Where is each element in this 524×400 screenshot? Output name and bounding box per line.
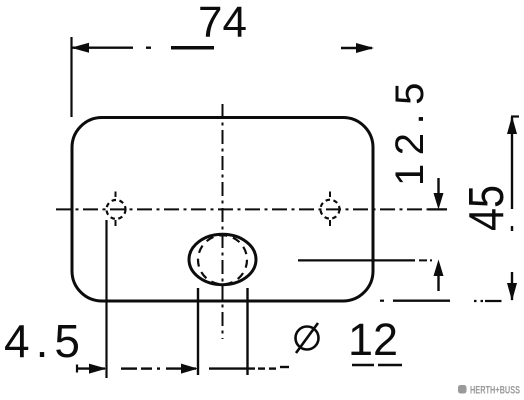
small hole right (ø4.5)	[321, 200, 340, 219]
dim 74: left arrowhead	[71, 43, 89, 53]
dim 74: dimension line left part	[72, 47, 133, 49]
ø12 left extension line	[197, 288, 199, 375]
right hole vertical center tick	[329, 192, 331, 198]
svg-text:12.5: 12.5	[388, 74, 432, 186]
bottom dimension line: mid dashes	[121, 367, 137, 369]
ø12 right extension line	[246, 288, 248, 375]
svg-text:74: 74	[198, 0, 247, 47]
part outline (74x45 plate, rounded corners)	[72, 118, 373, 302]
svg-text:45: 45	[460, 185, 514, 231]
big hole horizontal axis extension to right	[298, 259, 415, 261]
svg-text:12: 12	[348, 314, 398, 365]
label ø (diameter symbol)	[296, 327, 319, 350]
vertical centerline of big hole	[222, 104, 224, 339]
dim 12.5: vertical dimension line with outside arrows	[437, 178, 439, 198]
dim 74: left extension line above part	[70, 37, 72, 117]
dim 74: mid dashes	[146, 47, 151, 49]
bottom dimension line: solid span between ø12 extensions	[209, 367, 255, 369]
bottom dimension line: 4.5 arrow	[76, 367, 105, 369]
svg-text:HERTH+BUSS: HERTH+BUSS	[470, 385, 520, 397]
dim 45: dimension line right side	[511, 117, 513, 209]
bottom dimension line: right dashes	[258, 367, 265, 369]
bottom dimension line: ø12 left arrow	[166, 367, 196, 369]
small hole left (ø4.5)	[107, 200, 126, 219]
horizontal centerline through small holes	[56, 208, 428, 210]
dim 74: right tail + arrowhead	[341, 47, 372, 49]
left hole vertical center tick	[115, 192, 117, 198]
svg-text:4.5: 4.5	[4, 315, 86, 367]
dim 45: bottom arrowhead	[507, 283, 517, 301]
watermark logo	[458, 385, 467, 394]
ø4.5 extension line (left hole left tangent)	[105, 220, 107, 378]
dim 45: top tick	[511, 115, 519, 117]
dim 45: top arrowhead	[507, 116, 517, 134]
big hole ø12 circle (dashed)	[198, 235, 247, 284]
bottom edge extension to 45 dim line	[380, 300, 384, 302]
big hole outer ring (solid)	[189, 234, 256, 284]
